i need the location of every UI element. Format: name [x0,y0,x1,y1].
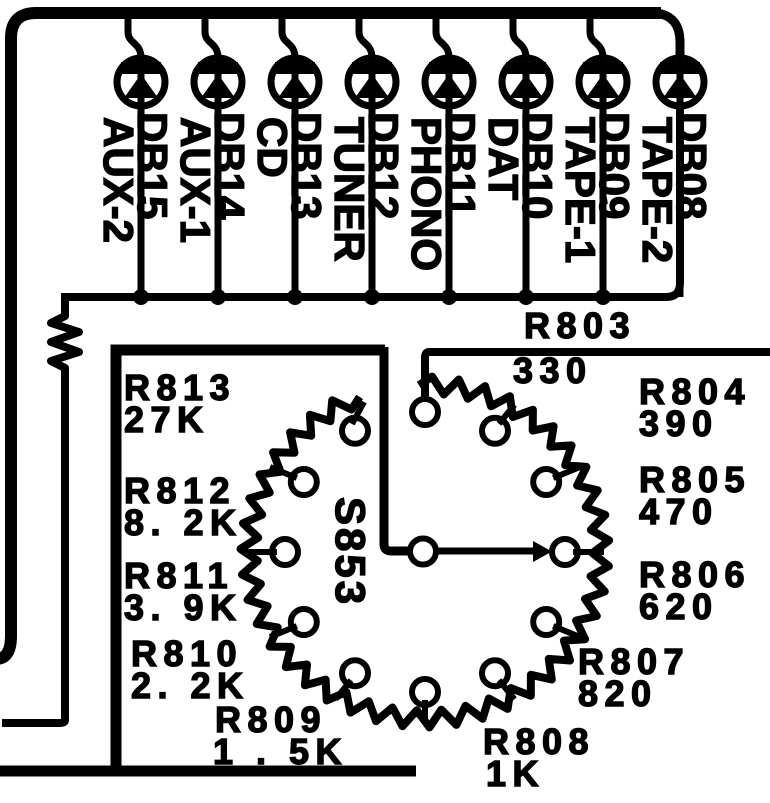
stub wire contact 120deg [352,402,364,424]
junction dot at x=141 [133,289,149,305]
svg-text:DAT: DAT [480,117,527,201]
svg-text:3. 9K: 3. 9K [124,587,243,628]
switch contact at 60deg [482,418,508,444]
svg-text:TAPE-2: TAPE-2 [634,117,681,263]
switch contact at 120deg [342,418,368,444]
arrowhead on wiper line [533,541,552,562]
switch contact at -150deg [291,609,317,635]
diode DB11 (PHONO input) [425,58,473,106]
switch contact at -120deg [342,660,368,686]
stub wire contact 180deg [246,549,277,555]
svg-text:390: 390 [639,403,719,444]
diode DB10 (DAT input) [502,58,550,106]
input bus wire (horizontal) [65,106,680,297]
wiper line to selected contact [436,548,535,555]
svg-text:820: 820 [578,673,658,714]
wire through diode DB13 down to input bus [292,56,299,297]
wire through diode DB09 down to input bus [600,56,607,297]
wire through diode DB10 down to input bus [523,56,530,297]
svg-text:R803: R803 [524,305,636,346]
wire from top bus to diode DB15 [128,16,141,58]
svg-text:CD: CD [249,117,296,178]
svg-text:620: 620 [639,586,719,627]
bottom border wire [0,766,416,777]
wire from top bus to diode DB09 [590,16,603,58]
wire from top bus to diode DB10 [513,16,526,58]
stub wire contact -60deg [499,680,515,699]
stub wire contact 150deg [270,467,297,478]
wire through diode DB11 down to input bus [446,56,453,297]
switch contact at -60deg [482,660,508,686]
wiper contact circle [410,539,436,565]
junction dot at x=526 [518,289,534,305]
wire through diode DB15 down to input bus [138,56,145,297]
wire through diode DB14 down to input bus [215,56,222,297]
diode DB08 (TAPE-2 input) [656,58,704,106]
junction dot at x=218 [210,289,226,305]
diode DB13 (CD input) [271,58,319,106]
diode DB12 (TUNER input) [348,58,396,106]
switch block box outline [116,350,385,772]
svg-text:TUNER: TUNER [326,117,373,262]
stub wire contact 30deg [553,467,580,478]
switch contact at 90deg [412,399,438,425]
junction dot at x=603 [595,289,611,305]
svg-text:AUX-1: AUX-1 [172,117,219,243]
left vertical wire with series resistor [2,293,79,723]
stub wire contact -120deg [336,680,352,699]
switch contact at 150deg [291,469,317,495]
wire through diode DB08 down to input bus [677,56,684,297]
svg-text:8. 2K: 8. 2K [124,502,243,543]
resistor ring of rotary switch S853 (R803-R813 chain) [241,377,610,728]
top supply bus wire [0,13,661,659]
diode DB09 (TAPE-1 input) [579,58,627,106]
svg-text:1 . 5K: 1 . 5K [213,731,348,772]
wire through diode DB12 down to input bus [369,56,376,297]
svg-text:S853: S853 [327,497,374,607]
stub wire contact -150deg [270,626,297,637]
stub wire contact -90deg [422,700,428,722]
wire from top bus to diode DB13 [282,16,295,58]
switch contact at -90deg [412,679,438,705]
stub wire contact -30deg [553,626,580,637]
svg-text:470: 470 [639,491,719,532]
wire from top bus to diode DB12 [359,16,372,58]
junction dot at x=449 [441,289,457,305]
diode DB15 (AUX-2 input) [117,58,165,106]
switch contact at -30deg [533,609,559,635]
svg-text:TAPE-1: TAPE-1 [557,117,604,263]
junction dot at x=295 [287,289,303,305]
wire from box top to wiper (common) of S853 [384,347,410,551]
switch contact at 0deg [552,539,578,565]
switch contact at 30deg [533,469,559,495]
svg-text:330: 330 [513,350,593,391]
diode DB14 (AUX-1 input) [194,58,242,106]
switch contact at 180deg [272,539,298,565]
stub wire contact 0deg [573,549,604,555]
R803 net wire to top-right [425,352,770,400]
stub wire contact 60deg [499,405,515,424]
svg-text:2. 2K: 2. 2K [131,665,250,706]
junction dot at x=372 [364,289,380,305]
svg-text:27K: 27K [124,399,210,440]
svg-text:PHONO: PHONO [403,117,450,271]
svg-text:AUX-2: AUX-2 [95,117,142,243]
wire from top bus to diode DB11 [436,16,449,58]
top-right corner wire into DB08 [656,13,680,60]
wire from top bus to diode DB14 [205,16,218,58]
svg-text:1K: 1K [486,753,545,794]
